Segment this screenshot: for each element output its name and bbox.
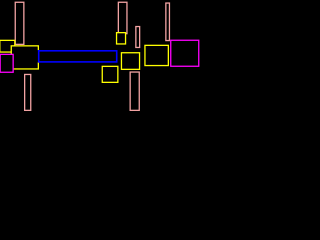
pink window P4 (narrow, top-right) (166, 3, 170, 41)
yellow window D (center-bottom) (102, 66, 118, 82)
yellow window B (left-center, over A) (11, 46, 38, 69)
yellow window E (right) (145, 45, 168, 65)
pink window P5 (tall, bottom-left) (25, 74, 31, 110)
pink window P2 (top-middle, under S1) (118, 2, 127, 33)
magenta window M2 (right) (171, 40, 199, 66)
blue bus rectangle (over B) (39, 51, 117, 62)
pink window P3 (narrow, middle) (136, 27, 140, 48)
yellow window S1 (small, over P2) (117, 33, 126, 44)
yellow window C (center-right) (121, 53, 139, 70)
pink window P1 (tall, top-left) (15, 2, 24, 44)
black mask under blue left edge (hides B right edge) (36, 50, 38, 62)
magenta window M1 (left, over B) (0, 54, 13, 72)
yellow window A (left, under B) (0, 40, 15, 52)
pink window P6 (tall, bottom-center) (130, 72, 139, 110)
